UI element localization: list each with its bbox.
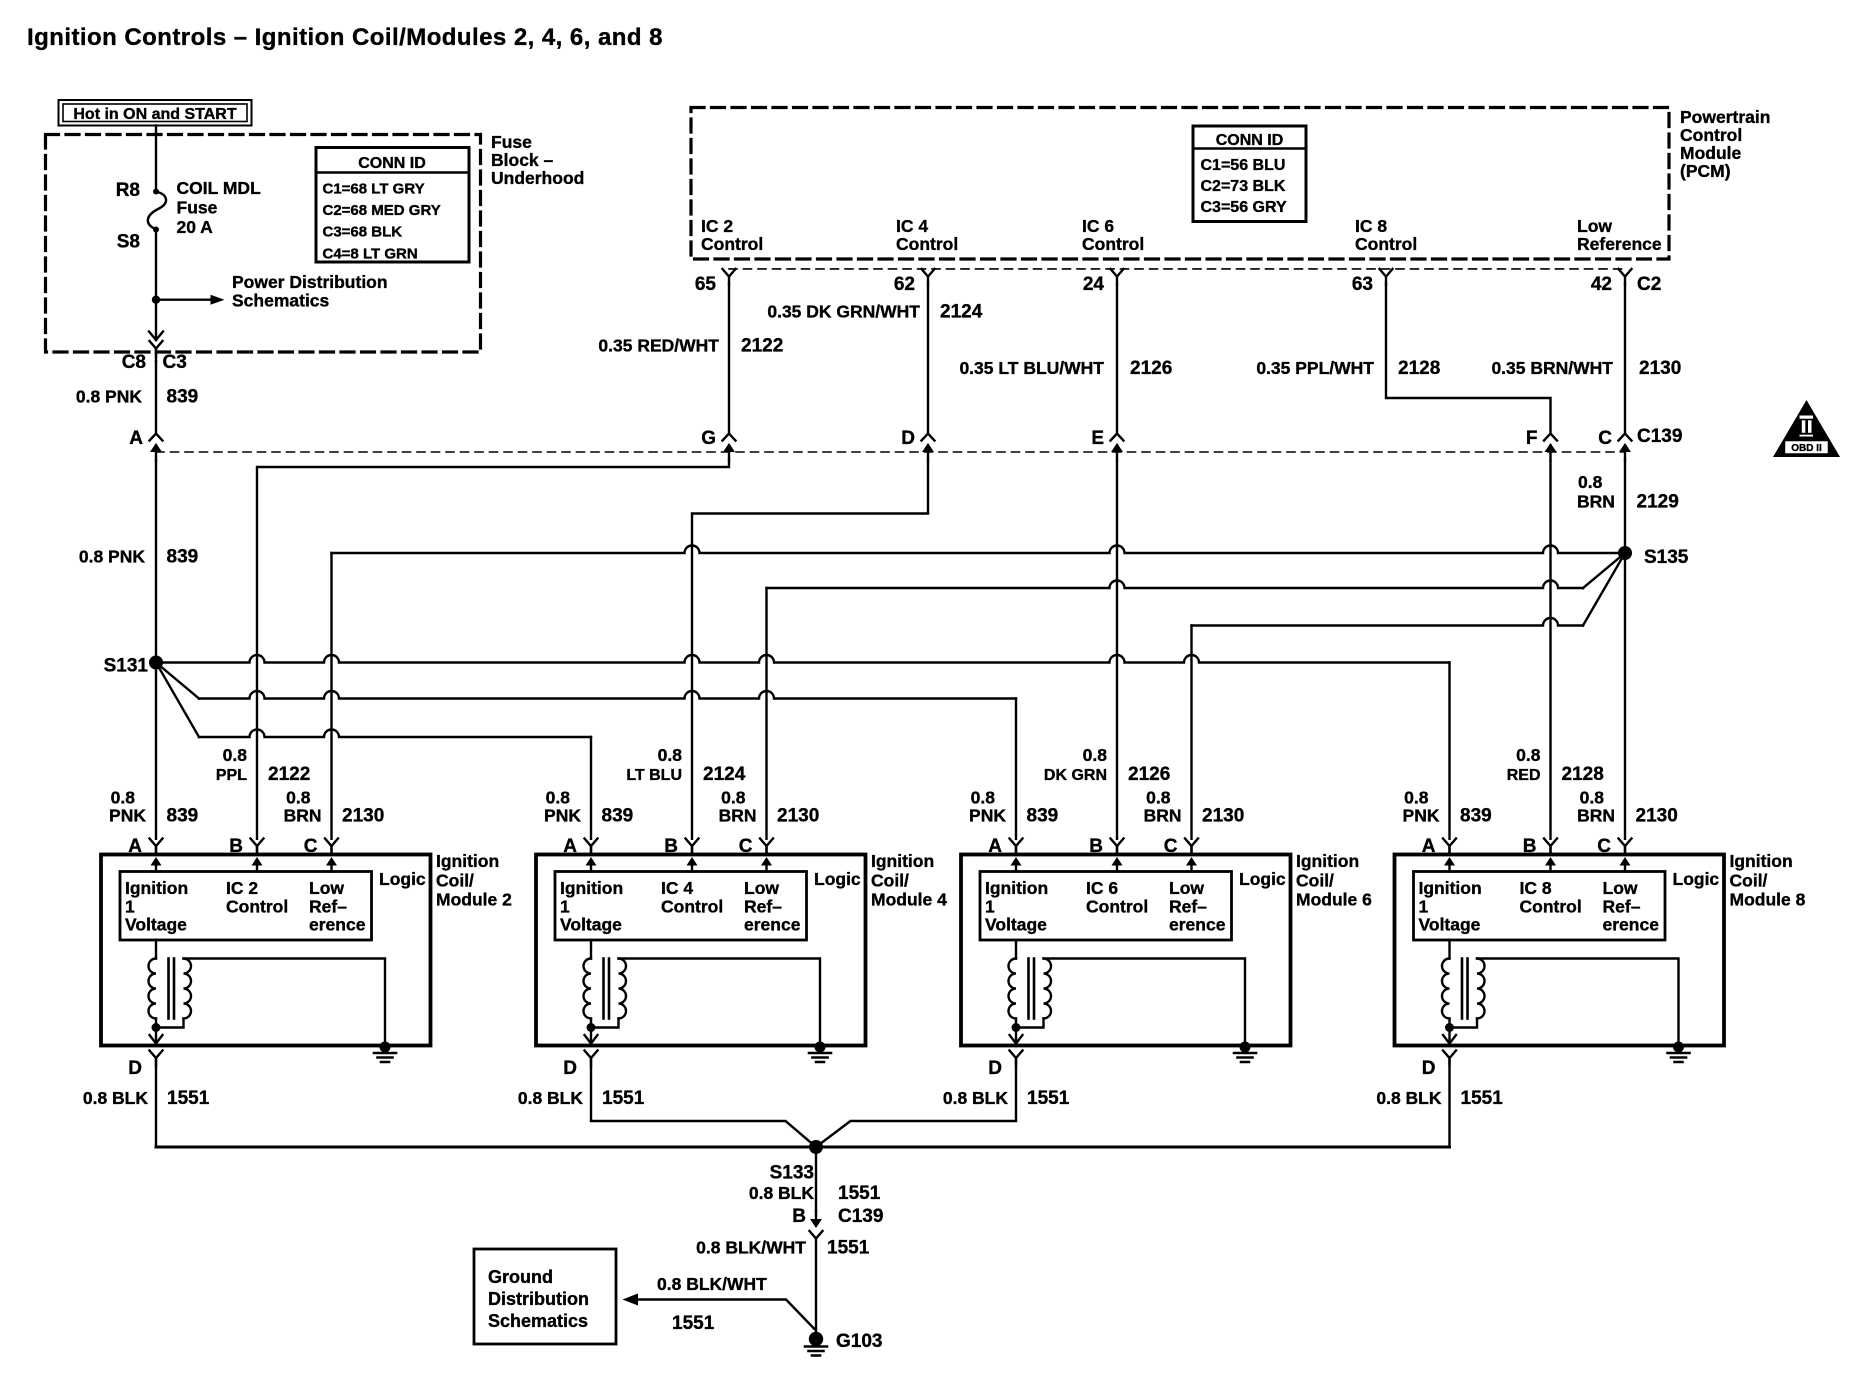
svg-text:erence: erence	[309, 915, 366, 935]
svg-text:Fuse: Fuse	[177, 198, 218, 218]
svg-text:2126: 2126	[1130, 358, 1172, 379]
wire BLK module 8 pin D down	[1448, 1058, 1450, 1147]
svg-text:0.8 BLK: 0.8 BLK	[1376, 1088, 1442, 1108]
svg-text:R8: R8	[116, 180, 140, 201]
wire IC8 control 2128 (pcm to F, jog)	[1386, 285, 1551, 434]
svg-text:C2=73 BLK: C2=73 BLK	[1201, 178, 1286, 195]
svg-text:IC 4: IC 4	[896, 216, 928, 236]
svg-text:Low: Low	[1169, 878, 1204, 898]
ground G103	[809, 1332, 823, 1346]
label 0.8 BRN 2130 (module 2)	[284, 788, 385, 827]
svg-text:2124: 2124	[940, 302, 983, 323]
svg-text:Hot in ON and START: Hot in ON and START	[73, 106, 236, 123]
svg-text:Control: Control	[1086, 896, 1148, 916]
svg-text:Underhood: Underhood	[491, 168, 584, 188]
svg-text:1: 1	[1419, 896, 1429, 916]
svg-text:PNK: PNK	[544, 806, 581, 826]
wire BLK 1551 bus	[156, 1146, 1450, 1149]
wire BLK S133 to C139 B	[815, 1147, 817, 1211]
module 4 arrow to pin D	[590, 1028, 592, 1044]
label 0.8 BLK 1551 (module 6)	[943, 1088, 1070, 1109]
svg-text:S8: S8	[117, 232, 140, 253]
svg-text:839: 839	[167, 387, 199, 408]
svg-text:BRN: BRN	[1144, 806, 1182, 826]
module 6 coil primary	[1015, 940, 1017, 959]
label 0.8 BLK 1551 (S133)	[749, 1183, 881, 1204]
svg-text:C4=8 LT GRN: C4=8 LT GRN	[323, 245, 418, 262]
svg-text:0.35 BRN/WHT: 0.35 BRN/WHT	[1491, 358, 1613, 378]
svg-text:Logic: Logic	[379, 869, 426, 889]
wire PNK branch to module 4 pin A	[156, 663, 199, 738]
svg-text:RED: RED	[1507, 767, 1541, 784]
svg-text:C8: C8	[122, 352, 146, 373]
label 0.8 PNK 839 (module 4)	[544, 788, 633, 827]
wire PNK 839 (A to S131)	[155, 461, 157, 663]
wire 2124 DK GRN (D to module 4 pin B)	[692, 461, 928, 839]
svg-text:Control: Control	[896, 234, 958, 254]
splice S133	[809, 1140, 823, 1154]
svg-text:0.35 DK GRN/WHT: 0.35 DK GRN/WHT	[767, 302, 920, 322]
wire BLK module 6 pin D jog	[816, 1058, 1016, 1147]
connector C8/C3	[150, 341, 163, 357]
svg-text:Low: Low	[744, 878, 779, 898]
module 4 coil primary	[590, 940, 592, 959]
module 6 internal arrow at x=1016.0	[1011, 857, 1022, 872]
fuse block label	[491, 132, 584, 188]
svg-text:IC 4: IC 4	[661, 878, 693, 898]
svg-text:839: 839	[167, 547, 199, 568]
module 4 coil core	[602, 959, 605, 1019]
svg-text:2128: 2128	[1562, 764, 1604, 785]
svg-text:Powertrain: Powertrain	[1680, 107, 1770, 127]
module 6 internal arrow at x=1191.5	[1186, 857, 1197, 872]
module 2 pin A connector	[150, 839, 163, 855]
svg-text:BRN: BRN	[719, 806, 757, 826]
pcm pin label IC 8 Control	[1355, 216, 1417, 254]
svg-text:839: 839	[167, 806, 199, 827]
module 2 primary-secondary junction	[155, 1019, 157, 1028]
label 0.8 LT BLU 2124 (module 4 control wire)	[626, 745, 745, 785]
label 0.8 DK GRN 2126 (module 6 control wire)	[1044, 745, 1170, 785]
svg-text:Coil/: Coil/	[871, 870, 909, 890]
wire BRN branch to module 6 pin C	[1583, 553, 1625, 626]
svg-text:Control: Control	[226, 896, 288, 916]
svg-text:Schematics: Schematics	[232, 291, 330, 311]
module 2 internal arrow at x=156.0	[151, 857, 162, 872]
svg-text:BRN: BRN	[1577, 492, 1615, 512]
wire junction to C8 arrow	[155, 300, 157, 340]
label 0.8 BLK 1551 (module 8)	[1376, 1088, 1503, 1109]
label 0.8 BLK 1551 (module 4)	[518, 1088, 645, 1109]
label 0.8 BRN 2130 (module 4)	[719, 788, 820, 827]
svg-text:Ignition: Ignition	[125, 878, 188, 898]
module 4 inner labels	[560, 869, 861, 935]
svg-text:0.35 LT BLU/WHT: 0.35 LT BLU/WHT	[959, 358, 1104, 378]
svg-text:Ref–: Ref–	[1169, 896, 1207, 916]
module 6 internal arrow at x=1117.0	[1112, 857, 1123, 872]
wire low reference 2130 (pcm to C)	[1624, 285, 1626, 434]
label ignition coil/module 4	[871, 851, 947, 910]
module 2 inner labels	[125, 869, 426, 935]
module 6 ground	[1240, 1042, 1251, 1053]
svg-text:Ignition: Ignition	[1730, 851, 1793, 871]
module 2 pin D connector	[150, 1051, 163, 1067]
module 8 pin A connector	[1443, 839, 1456, 855]
module 6 pin B connector	[1111, 839, 1124, 855]
svg-text:Ignition: Ignition	[871, 851, 934, 871]
label ignition coil/module 2	[436, 851, 512, 910]
wire IC2 control 2122 (pcm to G)	[728, 285, 730, 434]
hot-in-on-and-start box	[59, 100, 252, 126]
pcm connector C2 dashed line	[729, 268, 1625, 270]
ignition coil/module 4 outer box	[536, 855, 866, 1046]
svg-text:Low: Low	[1603, 878, 1638, 898]
module 8 coil core	[1461, 959, 1464, 1019]
svg-text:Coil/: Coil/	[436, 870, 474, 890]
label 0.8 PNK 839 (module 2)	[109, 788, 198, 827]
module 2 ground	[380, 1042, 391, 1053]
arrow to power distribution schematics	[156, 295, 225, 305]
module 8 secondary to ground wire	[1477, 959, 1679, 1046]
svg-text:1: 1	[985, 896, 995, 916]
svg-text:0.8: 0.8	[971, 788, 996, 808]
module 2 coil secondary	[184, 959, 192, 1019]
svg-text:G103: G103	[836, 1331, 882, 1352]
svg-text:G: G	[701, 428, 716, 449]
module 6 primary-secondary junction	[1015, 1019, 1017, 1028]
module 4 pin D connector	[585, 1051, 598, 1067]
svg-text:D: D	[563, 1058, 577, 1079]
wire IC6 control 2126 (pcm to E)	[1116, 285, 1118, 434]
svg-text:0.8: 0.8	[111, 788, 136, 808]
svg-text:Power Distribution: Power Distribution	[232, 272, 388, 292]
wire BLK module 2 pin D down	[155, 1058, 157, 1147]
svg-text:D: D	[128, 1058, 142, 1079]
wire BRN branch to module 2 pin C	[332, 546, 1626, 554]
svg-text:Ignition: Ignition	[1419, 878, 1482, 898]
label 0.8 PNK 839 (module 6)	[969, 788, 1058, 827]
svg-text:Module 6: Module 6	[1296, 890, 1372, 910]
wire PNK branch to module 6 pin A	[156, 663, 199, 699]
pcm pin label Low Reference	[1577, 216, 1662, 254]
svg-text:0.8: 0.8	[1578, 472, 1603, 492]
module 6 pin A connector	[1010, 839, 1023, 855]
svg-text:1: 1	[125, 896, 135, 916]
svg-text:2130: 2130	[1636, 806, 1678, 827]
svg-text:Module: Module	[1680, 143, 1742, 163]
svg-text:2124: 2124	[703, 764, 746, 785]
svg-text:2129: 2129	[1637, 492, 1679, 513]
svg-text:42: 42	[1591, 274, 1612, 295]
svg-text:IC 8: IC 8	[1355, 216, 1387, 236]
module 6 pin D connector	[1010, 1051, 1023, 1067]
svg-text:F: F	[1526, 428, 1538, 449]
wire fuse to junction	[155, 230, 157, 300]
svg-text:Logic: Logic	[1239, 869, 1286, 889]
svg-text:IC 2: IC 2	[701, 216, 733, 236]
powertrain control module dashed box	[691, 108, 1669, 260]
svg-text:0.8: 0.8	[658, 745, 683, 765]
svg-text:Control: Control	[1680, 125, 1742, 145]
wire BLK module 4 pin D jog	[591, 1058, 816, 1147]
module 2 arrow to pin D	[155, 1028, 157, 1044]
svg-text:0.8: 0.8	[546, 788, 571, 808]
svg-text:Logic: Logic	[814, 869, 861, 889]
svg-text:A: A	[129, 428, 143, 449]
svg-text:2130: 2130	[342, 806, 384, 827]
module 6 secondary to ground wire	[1044, 959, 1246, 1046]
svg-text:0.8: 0.8	[721, 788, 746, 808]
ignition coil/module 2 outer box	[101, 855, 431, 1046]
svg-text:Ignition: Ignition	[1296, 851, 1359, 871]
label 0.8 BLK 1551 (module 2)	[83, 1088, 210, 1109]
wire BLK/WHT 1551 (B to G103)	[815, 1239, 817, 1333]
wire 2122 PPL (G to module 2 pin B)	[257, 461, 729, 839]
wire BRN (S135 to module 8 pin C)	[1624, 553, 1626, 839]
svg-text:Block –: Block –	[491, 150, 554, 170]
svg-text:20 A: 20 A	[177, 217, 214, 237]
svg-text:0.8 PNK: 0.8 PNK	[76, 387, 142, 407]
svg-text:839: 839	[1460, 806, 1492, 827]
svg-text:0.8: 0.8	[286, 788, 311, 808]
label 0.8 PNK 839 (module 8)	[1403, 788, 1492, 827]
module 4 primary-secondary junction	[590, 1019, 592, 1028]
wire BRN branch to module 4 pin C	[1583, 553, 1625, 588]
svg-text:erence: erence	[1603, 915, 1660, 935]
svg-text:2130: 2130	[1639, 358, 1681, 379]
svg-text:LT BLU: LT BLU	[626, 767, 682, 784]
module 4 pin A connector	[585, 839, 598, 855]
module 4 ground	[815, 1042, 826, 1053]
svg-text:Ignition Controls – Ignition C: Ignition Controls – Ignition Coil/Module…	[27, 24, 663, 51]
svg-text:2126: 2126	[1128, 764, 1170, 785]
svg-text:Logic: Logic	[1673, 869, 1720, 889]
arrowhead at fuse box exit	[149, 332, 163, 341]
pcm pin 42 connector	[1619, 269, 1632, 285]
svg-text:C1=56 BLU: C1=56 BLU	[1201, 157, 1286, 174]
label 0.8 BRN 2130 (module 8)	[1577, 788, 1678, 827]
svg-text:2130: 2130	[777, 806, 819, 827]
module 2 pin C connector	[325, 839, 338, 855]
connector C139 pin B	[810, 1211, 823, 1239]
module 6 coil secondary	[1044, 959, 1052, 1019]
wire 2129 BRN (C to S135)	[1624, 461, 1626, 554]
label 0.8 PPL 2122 (module 2 control wire)	[216, 745, 310, 785]
svg-text:Fuse: Fuse	[491, 132, 532, 152]
connector C139 pin E	[1111, 434, 1124, 461]
module 4 secondary to ground wire	[619, 959, 821, 1046]
connector C139 pin A	[150, 434, 163, 461]
svg-text:CONN ID: CONN ID	[1216, 132, 1284, 149]
wire PNK branch to module 8 pin A	[156, 655, 1450, 663]
module 6 arrow to pin D	[1015, 1028, 1017, 1044]
wire IC4 control 2124 (pcm to D)	[927, 285, 929, 434]
pcm label	[1680, 107, 1770, 181]
wire PNK 839 (C8 to A)	[155, 362, 157, 434]
svg-text:1551: 1551	[672, 1313, 715, 1334]
svg-text:0.8 BLK: 0.8 BLK	[749, 1183, 815, 1203]
svg-text:Module 2: Module 2	[436, 890, 512, 910]
svg-text:CONN ID: CONN ID	[358, 155, 426, 172]
svg-text:839: 839	[602, 806, 634, 827]
svg-text:1551: 1551	[838, 1183, 881, 1204]
pcm pin 65 connector	[723, 269, 736, 285]
svg-text:D: D	[1422, 1058, 1436, 1079]
conn id table (fuse block)	[316, 148, 469, 263]
svg-text:Ignition: Ignition	[985, 878, 1048, 898]
svg-text:1551: 1551	[1461, 1088, 1504, 1109]
conn id table (pcm)	[1193, 126, 1306, 222]
connector C139 pin D	[922, 434, 935, 461]
svg-text:S133: S133	[770, 1163, 814, 1184]
module 2 internal arrow at x=257.0	[252, 857, 263, 872]
svg-text:C139: C139	[838, 1206, 883, 1227]
module 4 pin C connector	[760, 839, 773, 855]
module 8 inner labels	[1419, 869, 1720, 935]
module 8 pin C connector	[1619, 839, 1632, 855]
svg-text:65: 65	[695, 274, 717, 295]
svg-text:Control: Control	[1520, 896, 1582, 916]
module 8 logic inner box	[1414, 872, 1666, 941]
module 8 coil secondary	[1477, 959, 1485, 1019]
svg-text:0.8: 0.8	[1580, 788, 1605, 808]
svg-text:C1=68 LT GRY: C1=68 LT GRY	[323, 181, 425, 198]
svg-text:0.8 BLK: 0.8 BLK	[83, 1088, 149, 1108]
module 4 internal arrow at x=766.5	[761, 857, 772, 872]
svg-text:C3: C3	[163, 352, 187, 373]
svg-text:PNK: PNK	[1403, 806, 1440, 826]
arrow wire to ground distribution	[623, 1294, 815, 1330]
svg-text:D: D	[988, 1058, 1002, 1079]
svg-text:PNK: PNK	[109, 806, 146, 826]
svg-text:1: 1	[560, 896, 570, 916]
svg-text:E: E	[1091, 428, 1104, 449]
svg-text:(PCM): (PCM)	[1680, 161, 1731, 181]
svg-text:C3=56 GRY: C3=56 GRY	[1201, 199, 1287, 216]
svg-text:1551: 1551	[602, 1088, 645, 1109]
label 0.8 BRN 2129	[1577, 472, 1679, 513]
svg-text:Low: Low	[1577, 216, 1612, 236]
svg-text:IC 6: IC 6	[1082, 216, 1114, 236]
module 6 logic inner box	[980, 872, 1232, 941]
svg-text:Ref–: Ref–	[744, 896, 782, 916]
svg-text:Reference: Reference	[1577, 234, 1662, 254]
svg-text:erence: erence	[744, 915, 801, 935]
svg-text:C3=68 BLK: C3=68 BLK	[323, 224, 403, 241]
svg-text:Low: Low	[309, 878, 344, 898]
svg-text:COIL MDL: COIL MDL	[177, 178, 262, 198]
wire PNK feed (hot box to fuse)	[155, 126, 157, 192]
svg-text:Coil/: Coil/	[1730, 870, 1768, 890]
svg-text:C2=68 MED GRY: C2=68 MED GRY	[323, 202, 441, 219]
svg-text:Ignition: Ignition	[560, 878, 623, 898]
module 2 pin B connector	[251, 839, 264, 855]
svg-text:2130: 2130	[1202, 806, 1244, 827]
svg-text:Ref–: Ref–	[1603, 896, 1641, 916]
svg-text:24: 24	[1083, 274, 1105, 295]
pcm pin 63 connector	[1380, 269, 1393, 285]
pcm pin 62 connector	[922, 269, 935, 285]
svg-text:0.8: 0.8	[1516, 745, 1541, 765]
wire PNK (S131 to module 2 pin A)	[155, 663, 157, 839]
svg-text:Voltage: Voltage	[560, 915, 622, 935]
svg-text:0.8 BLK: 0.8 BLK	[518, 1088, 584, 1108]
svg-text:2128: 2128	[1398, 358, 1440, 379]
svg-text:S131: S131	[104, 656, 149, 677]
svg-text:Voltage: Voltage	[125, 915, 187, 935]
connector C139 pin G	[723, 434, 736, 461]
svg-text:D: D	[901, 428, 915, 449]
svg-text:C2: C2	[1637, 274, 1661, 295]
module 8 primary-secondary junction	[1448, 1019, 1450, 1028]
wire 2128 RED (F to module 8 pin B)	[1549, 461, 1551, 839]
ground distribution schematics box	[474, 1249, 616, 1344]
svg-text:IC 8: IC 8	[1520, 878, 1552, 898]
svg-text:PPL: PPL	[216, 767, 247, 784]
OBD II icon	[1773, 400, 1840, 457]
module 4 pin B connector	[686, 839, 699, 855]
svg-text:erence: erence	[1169, 915, 1226, 935]
svg-text:BRN: BRN	[284, 806, 322, 826]
svg-text:PNK: PNK	[969, 806, 1006, 826]
svg-text:0.8: 0.8	[223, 745, 248, 765]
label 0.8 RED 2128 (module 8 control wire)	[1507, 745, 1604, 785]
svg-text:Module 4: Module 4	[871, 890, 947, 910]
fuse R8/S8 COIL MDL 20 A	[148, 189, 166, 233]
svg-text:1551: 1551	[167, 1088, 210, 1109]
svg-text:Control: Control	[1082, 234, 1144, 254]
svg-text:IC 6: IC 6	[1086, 878, 1118, 898]
svg-text:0.8: 0.8	[1146, 788, 1171, 808]
label 0.8 BRN 2130 (module 6)	[1144, 788, 1245, 827]
svg-text:63: 63	[1352, 274, 1373, 295]
module 8 coil primary	[1448, 940, 1450, 959]
svg-text:Control: Control	[701, 234, 763, 254]
svg-text:62: 62	[894, 274, 915, 295]
junction dot (power distribution tap)	[152, 296, 160, 304]
label power distribution schematics	[232, 272, 388, 311]
module 4 coil secondary	[619, 959, 627, 1019]
svg-text:Voltage: Voltage	[985, 915, 1047, 935]
module 8 arrow to pin D	[1448, 1028, 1450, 1044]
svg-text:Distribution: Distribution	[488, 1289, 589, 1309]
fuse block underhood dashed box	[46, 135, 481, 353]
svg-text:Ignition: Ignition	[436, 851, 499, 871]
pcm pin label IC 4 Control	[896, 216, 958, 254]
svg-text:0.8 PNK: 0.8 PNK	[79, 547, 145, 567]
svg-text:BRN: BRN	[1577, 806, 1615, 826]
svg-text:Ground: Ground	[488, 1267, 553, 1287]
wire 2126 LT BLU (E to module 6 pin B)	[1116, 461, 1118, 839]
module 4 logic inner box	[555, 872, 807, 941]
label COIL MDL Fuse 20 A	[177, 178, 262, 237]
module 2 internal arrow at x=331.5	[326, 857, 337, 872]
svg-text:Coil/: Coil/	[1296, 870, 1334, 890]
module 8 ground	[1673, 1042, 1684, 1053]
svg-text:0.8 BLK/WHT: 0.8 BLK/WHT	[696, 1238, 806, 1258]
module 2 coil core	[167, 959, 170, 1019]
svg-text:Voltage: Voltage	[1419, 915, 1481, 935]
svg-text:0.8: 0.8	[1404, 788, 1429, 808]
pcm pin label IC 6 Control	[1082, 216, 1144, 254]
connector C139 pin F	[1544, 434, 1557, 461]
svg-text:0.8 BLK: 0.8 BLK	[943, 1088, 1009, 1108]
pcm pin label IC 2 Control	[701, 216, 763, 254]
splice S135	[1618, 546, 1632, 560]
module 8 pin B connector	[1544, 839, 1557, 855]
svg-text:OBD II: OBD II	[1791, 443, 1822, 454]
svg-text:1551: 1551	[827, 1238, 870, 1259]
